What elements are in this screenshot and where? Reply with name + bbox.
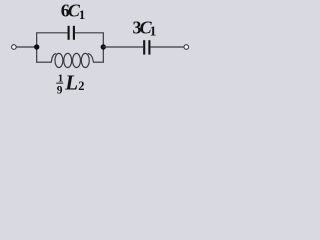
junction node left <box>34 44 39 49</box>
svg-text:2: 2 <box>78 79 84 93</box>
wire: top branch left segment <box>36 32 67 34</box>
svg-text:9: 9 <box>57 84 63 96</box>
wire: capacitor 3C1 to right terminal <box>151 46 185 48</box>
inductor loop 2 <box>64 53 72 67</box>
inductor loop 3 <box>73 53 81 67</box>
label 3C1 <box>133 18 157 39</box>
label 1/9 L2 <box>56 71 84 97</box>
svg-text:1: 1 <box>150 24 157 39</box>
terminal: right port <box>184 45 189 50</box>
wire: top branch right segment <box>75 32 104 34</box>
terminal: left port <box>12 45 17 50</box>
wire: parallel loop right vertical <box>102 33 104 62</box>
junction node right <box>101 44 106 49</box>
inductor loop 1 <box>55 53 63 67</box>
label 6C1 <box>61 1 85 22</box>
wire: bottom branch right segment <box>93 61 104 63</box>
wire: left terminal to left junction <box>16 46 37 48</box>
wire: parallel loop left vertical <box>36 33 38 62</box>
svg-text:L: L <box>64 71 78 95</box>
wire: right junction to capacitor 3C1 <box>103 46 143 48</box>
inductor coil lead-out <box>88 54 94 63</box>
svg-text:1: 1 <box>79 7 86 22</box>
wire: bottom branch left segment <box>36 61 52 63</box>
inductor loop 4 <box>81 53 89 67</box>
inductor L (1/9 L2) coil lead-in <box>51 54 56 63</box>
capacitor C (6C1) plates <box>68 26 70 40</box>
capacitor 3C1 plates <box>143 40 145 54</box>
